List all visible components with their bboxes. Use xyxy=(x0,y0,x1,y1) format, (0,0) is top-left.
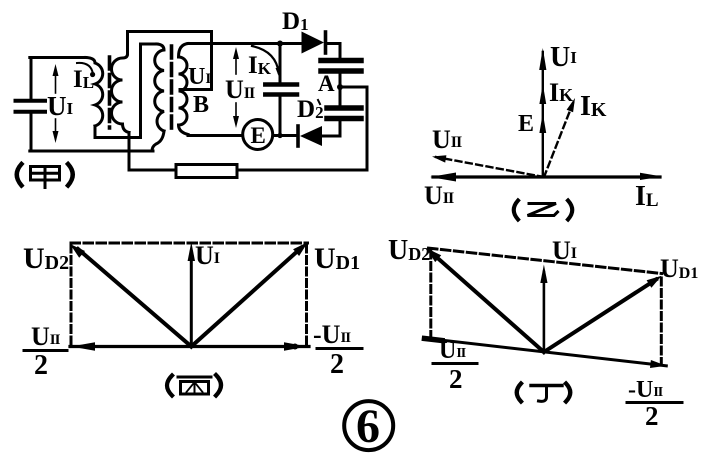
node: junction bottom (cap C4) xyxy=(277,133,282,138)
arrowhead right (-U_II/2) xyxy=(284,342,308,351)
diode D1 xyxy=(302,32,326,54)
wire: secondary top rail xyxy=(188,42,302,45)
winding L4 (T2 secondary) xyxy=(179,44,189,135)
arrowhead I_L xyxy=(90,72,95,77)
arrowhead I_L right xyxy=(640,173,662,180)
capacitor C4 (across U_II) xyxy=(265,85,297,95)
svg-text:2: 2 xyxy=(34,350,48,381)
wire: L2 bottom down to bottom rail xyxy=(128,133,131,171)
resistor R1 xyxy=(176,165,237,178)
capacitor C1 (tank) xyxy=(16,101,46,112)
wire: L4 centre tap xyxy=(180,88,212,91)
wire: node A to right rail xyxy=(340,86,367,89)
wire: right rail down xyxy=(366,87,369,170)
capacitor C3 xyxy=(327,108,361,119)
wire: bottom rail right xyxy=(237,169,367,172)
vector U_D2 (up-left) xyxy=(78,249,191,347)
arrowhead U_II solid left xyxy=(430,173,456,182)
label -U_II/2 fraction (right) xyxy=(313,320,362,380)
vector U_D1 (up-right) xyxy=(191,248,301,347)
arrowhead U_D2 xyxy=(426,248,441,262)
vector U_I (up) xyxy=(543,272,546,352)
svg-text:2: 2 xyxy=(330,349,344,380)
wire: tank bottom rail xyxy=(30,150,153,153)
arrowhead left (U_II/2) xyxy=(71,342,95,351)
wire: bottom rail left xyxy=(129,169,176,172)
vector I_K dashed xyxy=(544,103,573,177)
arrowhead U_I xyxy=(540,265,547,284)
vector U_I (up) xyxy=(190,252,193,347)
svg-text:E: E xyxy=(518,111,534,137)
label U_II/2 fraction (left) xyxy=(24,322,67,381)
arrowhead I_K xyxy=(567,98,575,112)
construction line left (dashed) xyxy=(70,245,73,345)
wire: L3 bottom lead to tank rail xyxy=(152,131,164,151)
construction line top (dashed, slanted) xyxy=(429,248,662,273)
node A xyxy=(337,84,343,90)
svg-text:2: 2 xyxy=(449,364,463,394)
inductor L1 (tank) xyxy=(86,58,103,127)
wire: C2 to node A xyxy=(339,74,342,88)
dot on baseline xyxy=(292,344,298,350)
wire: L1 bottom lead xyxy=(94,126,97,138)
construction line left (dashed) xyxy=(429,251,432,338)
arrowhead U_D1 xyxy=(647,276,662,288)
vector U_D2 (up-left) xyxy=(433,254,544,352)
label (乙) xyxy=(514,201,573,220)
wire: C3 to D2 xyxy=(322,121,340,136)
wire: tank top xyxy=(30,56,86,59)
voltage arrow U_I (tank) xyxy=(53,64,59,143)
arrowhead E lower xyxy=(539,113,546,133)
wire: C4 upper lead xyxy=(279,44,282,83)
wire: tank left rail upper xyxy=(30,58,33,100)
wire: vertical link to L3 top xyxy=(141,44,158,138)
meter E xyxy=(243,120,273,150)
wire: C4 lower lead xyxy=(279,97,282,136)
baseline U_II axis xyxy=(70,345,309,348)
winding L2 (T1 secondary) xyxy=(112,54,130,133)
node: junction top (cap C4) xyxy=(277,41,283,47)
arrowhead U_D1 xyxy=(293,242,308,256)
arrowhead right end baseline xyxy=(650,360,666,368)
transformer T1 core xyxy=(108,57,112,128)
capacitor C2 xyxy=(321,61,361,72)
arrowhead U_I xyxy=(188,242,195,261)
diode D2 xyxy=(298,126,322,146)
vector U_I / Ik / E vertical xyxy=(542,52,544,177)
construction line top (dashed) xyxy=(71,242,308,245)
current arrow I_L (curved) xyxy=(77,63,93,74)
wire: L4 bottom to meter E xyxy=(188,134,243,137)
label U_II/2 fraction (left) xyxy=(433,338,477,394)
current arrow I_K (curved) xyxy=(252,46,279,73)
wire: tank left rail lower xyxy=(30,114,33,151)
label (丙) xyxy=(167,375,221,396)
transformer T2 core xyxy=(170,46,174,128)
construction line right (dashed) xyxy=(660,278,663,364)
baseline (slanted) xyxy=(424,338,666,366)
construction line right (dashed) xyxy=(305,245,308,344)
svg-text:6: 6 xyxy=(356,400,380,453)
arrowhead U_I top xyxy=(539,48,546,70)
svg-text:E: E xyxy=(251,123,266,148)
arrowhead U_II dashed xyxy=(432,155,446,162)
label (丁) xyxy=(517,384,571,402)
wire: meter E to D2 xyxy=(273,134,298,137)
svg-text:B: B xyxy=(193,92,209,118)
svg-text:A: A xyxy=(318,71,335,96)
baseline left-end blob xyxy=(425,339,443,341)
vector U_D1 (up-right) xyxy=(544,280,656,353)
arrowhead Ik mid xyxy=(539,84,546,104)
wire: top link (L2 top to L4 centre tap) xyxy=(128,32,212,90)
wire: node A to C3 xyxy=(339,87,342,106)
label (甲) xyxy=(17,164,73,188)
vector U_II dashed (upper left) xyxy=(436,157,544,177)
voltage arrow U_II xyxy=(233,47,239,128)
wire: L1 bottom to L3 top link xyxy=(95,136,141,139)
tick above 2 of D2 xyxy=(318,100,320,104)
svg-text:2: 2 xyxy=(645,401,659,431)
figure number 6 (circled) xyxy=(344,400,393,453)
label -U_II/2 fraction (right) xyxy=(627,377,682,431)
inductor L3 (T2 primary) xyxy=(155,44,164,131)
axis (U_II left / I_L right) xyxy=(433,175,660,178)
arrowhead U_D2 xyxy=(70,244,85,258)
wire: D1 to C2 xyxy=(326,44,341,59)
arrowhead I_K xyxy=(276,68,282,77)
